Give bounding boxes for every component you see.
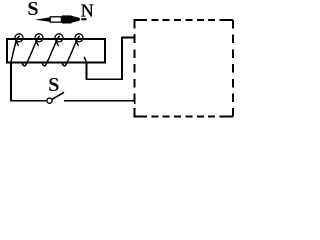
dashed box right edge	[232, 20, 234, 117]
magnet white body (S half)	[50, 17, 61, 22]
wire: bottom rail from switch to dashed box	[64, 100, 135, 102]
wire: vertical up at x=122	[121, 38, 123, 80]
wire: left vertical from solenoid bottom to bottom rail	[11, 63, 47, 101]
dashed box bottom edge	[134, 116, 233, 118]
coil winding turn 4	[62, 36, 79, 65]
dashed box left edge	[133, 20, 135, 117]
solenoid body rectangle	[7, 39, 105, 63]
coil winding turn 2	[22, 36, 39, 65]
coil end stub into drop wire	[84, 57, 86, 62]
terminal tick bottom	[134, 98, 136, 104]
dashed box top edge	[134, 19, 233, 21]
coil winding turn 1	[11, 36, 19, 62]
coil winding turn 3	[42, 36, 59, 65]
svg-text:S: S	[27, 0, 38, 20]
svg-text:S: S	[48, 74, 59, 96]
svg-text:N: N	[81, 1, 94, 21]
switch blade (open)	[52, 92, 64, 99]
magnet black body (N half)	[62, 15, 72, 23]
magnet needle left tip (white/S end spear)	[35, 17, 50, 21]
magnet black tapered tail	[72, 16, 80, 23]
wire: lower horizontal to the right	[86, 78, 123, 80]
switch pivot circle	[47, 98, 52, 103]
terminal tick top	[134, 34, 136, 40]
wire: drop from coil end	[86, 62, 88, 80]
arrow dash	[81, 18, 86, 20]
wire: top horizontal into dashed box	[121, 37, 135, 39]
